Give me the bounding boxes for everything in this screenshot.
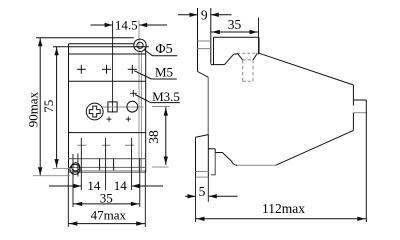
svg-text:75: 75 (41, 100, 56, 113)
bottom terminal dash 2 (102, 144, 111, 146)
cross above dial (130, 90, 137, 97)
side right edge (365, 100, 367, 222)
foot bottom line 2 (196, 176, 209, 178)
ext line 47 left (67, 172, 69, 227)
ext line 35 right (139, 158, 141, 207)
side left step diagonal (198, 72, 209, 78)
screw head bottom (243, 59, 253, 61)
keyhole slot arc (70, 164, 80, 174)
front view plate lip line (69, 43, 134, 45)
ext line 47 right (144, 170, 146, 227)
dim line 9 left tail (178, 13, 198, 17)
side recess bottom (211, 174, 216, 176)
label 9 (201, 8, 208, 23)
side right upper edge (352, 85, 354, 106)
label 75 (41, 100, 56, 113)
label 38 (146, 130, 161, 144)
bottom edge line 1 (69, 169, 146, 171)
svg-text:35: 35 (100, 190, 113, 205)
svg-text:112max: 112max (262, 201, 305, 216)
dim line 14.5 right tail (139, 23, 167, 27)
ext line 14 left (80, 138, 82, 190)
svg-text:90max: 90max (26, 91, 41, 127)
svg-text:9: 9 (201, 8, 208, 23)
M5 label (155, 65, 173, 80)
side notch top shelf (234, 53, 239, 56)
ext line 38 bottom (152, 166, 169, 168)
small cross right (126, 117, 131, 122)
hole centerline (138, 21, 140, 172)
terminal cross 1 (77, 65, 86, 74)
side right lower edge (352, 113, 354, 131)
terminal band bottom line (69, 80, 146, 82)
front view upper body line (53, 46, 149, 48)
ext line 14 mid (105, 138, 107, 190)
side top right corner edge (258, 37, 260, 53)
foot left ext line (195, 177, 197, 222)
adjustment dial circle (127, 101, 138, 112)
terminal band top line (69, 53, 146, 55)
svg-text:35: 35 (228, 17, 242, 32)
label 14 left (87, 178, 101, 193)
bottom band line 1 (69, 158, 146, 160)
svg-text:14: 14 (114, 178, 128, 193)
foot left edge (195, 137, 197, 177)
side notch bottom (211, 64, 225, 66)
dim line 38 (164, 107, 168, 165)
label 47max (91, 207, 127, 222)
side body left lower edge (207, 77, 209, 134)
screw head left slope (237, 53, 242, 60)
ext line 35 left (72, 154, 74, 207)
M3.5 leader (135, 95, 180, 103)
side long top diagonal (259, 53, 353, 85)
side rail plate right edge (210, 8, 212, 64)
screw shank bottom (243, 80, 253, 82)
keyhole circle (71, 163, 79, 171)
mounting hole outer circle (134, 39, 146, 51)
foot bottom line 1 (196, 171, 209, 173)
foot right edge black (207, 135, 209, 177)
label 14.5 (115, 17, 138, 32)
terminal cross 3 (128, 65, 137, 74)
dim line 9 right tail (211, 13, 232, 17)
side step vertical (214, 149, 216, 153)
rail hook line 1 (198, 40, 211, 42)
dim line 14 left tail (49, 184, 81, 188)
lower band top line (69, 132, 146, 134)
dim line 90max (38, 38, 42, 176)
front view right edge (145, 47, 147, 173)
screw shank right (252, 60, 254, 81)
dim line 112max (196, 217, 367, 221)
screw head top (237, 52, 257, 54)
side notch diagonal (225, 54, 234, 64)
rail hook line 2 (198, 48, 211, 50)
dim line 35 (73, 202, 140, 206)
side top edge (214, 36, 260, 38)
label 14 right (114, 178, 128, 193)
phillips screw cross (89, 106, 100, 117)
svg-text:M3.5: M3.5 (152, 89, 180, 104)
side step top (208, 148, 215, 150)
foot top diagonal (196, 135, 209, 138)
label 90max (26, 91, 41, 127)
front view inner right line (140, 52, 142, 172)
svg-text:5: 5 (199, 184, 206, 199)
ext line 90max bottom (33, 175, 70, 177)
svg-text:M5: M5 (155, 65, 173, 80)
bottom band divider 2 (113, 159, 115, 171)
screw head right slope (253, 53, 257, 60)
dim line 47max (68, 221, 145, 225)
front view centerline (112, 21, 114, 113)
side recess right edge (214, 153, 216, 175)
svg-text:Φ5: Φ5 (155, 42, 172, 57)
label 35 (100, 190, 113, 205)
front view bottom edge (69, 171, 146, 173)
dim line 35 side (211, 30, 259, 34)
phi5 leader (145, 50, 178, 56)
svg-text:47max: 47max (91, 207, 127, 222)
dim line 5 right tail (209, 194, 238, 198)
terminal cross 2 (102, 65, 111, 74)
side left upper edge (213, 37, 215, 64)
front view top edge (36, 37, 134, 39)
mounting hole inner circle (137, 42, 143, 48)
side bottom left curve (223, 153, 238, 166)
label 5 (199, 184, 206, 199)
M5 leader (134, 71, 177, 79)
front view left edge (68, 44, 70, 173)
ext line 14 right (131, 138, 133, 190)
label 35 side (228, 17, 242, 32)
svg-text:38: 38 (146, 130, 161, 144)
keyhole centerline (77, 154, 79, 177)
ext line side 35 right (258, 18, 260, 55)
reset square (108, 102, 117, 112)
label 112max (262, 201, 305, 216)
bottom band divider 1 (99, 159, 101, 171)
dim line 14.5 left tail (91, 23, 113, 27)
small cross left (107, 117, 112, 122)
ext line 38 top (152, 106, 170, 108)
dim line 75 (54, 47, 58, 168)
side step shelf (215, 152, 222, 154)
side bottom right diagonal (276, 130, 354, 165)
side notch box bottom (353, 112, 366, 114)
M3.5 label (152, 89, 180, 104)
screw shank left (242, 60, 244, 81)
dim line 5 left tail (185, 194, 196, 198)
phi5 label (155, 42, 172, 57)
bottom terminal dash 1 (77, 144, 86, 146)
mid band line through dial (101, 106, 144, 108)
svg-text:14.5: 14.5 (115, 17, 138, 32)
bottom terminal dash 3 (125, 144, 134, 146)
foot right ext line (207, 177, 209, 202)
side notch box top (353, 99, 366, 101)
side rail plate left edge (197, 8, 199, 72)
side bottom line (236, 164, 276, 166)
bottom band line 3 (69, 166, 146, 168)
phillips screw circle (86, 103, 103, 120)
ext line 75 bottom (53, 167, 74, 169)
dim line 14 right tail (132, 184, 163, 188)
